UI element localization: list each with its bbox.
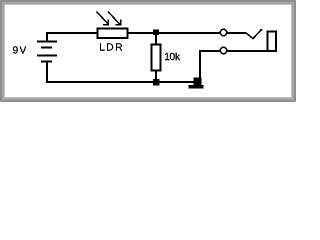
wire: junction A stub down to 10k <box>155 33 157 44</box>
light arrow 2 into LDR <box>108 12 121 25</box>
jack J1 plug body <box>268 32 277 52</box>
node: junction at 10k bottom on rail <box>153 79 160 86</box>
battery B1 short plate 2 <box>41 61 52 63</box>
battery B1 long plate 2 <box>37 55 57 57</box>
wire: LDR right lead to junction A <box>128 32 156 34</box>
wire: bottom rail to ground junction <box>46 81 197 83</box>
resistor R2 10k body <box>152 45 161 71</box>
label: LDR <box>100 43 122 50</box>
wire: jack sleeve wire left of circle <box>200 51 268 78</box>
label: 9V battery value <box>13 46 26 53</box>
node: junction at ground <box>194 78 202 86</box>
resistor R1 LDR body <box>98 29 128 39</box>
wire: junction A to jack tip contact <box>156 32 220 34</box>
light arrow 1 into LDR <box>97 12 109 25</box>
jack J1 tip spring contact <box>246 29 262 39</box>
battery B1 (9V) long plate 1 <box>37 41 57 43</box>
decorative frame (not a circuit element) <box>1 1 295 101</box>
ground symbol bar <box>189 85 204 89</box>
battery B1 short plate 1 <box>41 47 52 49</box>
wire: 10k bottom lead to bottom rail <box>155 70 157 82</box>
wire: top rail, battery + terminal to LDR left lead <box>47 33 97 41</box>
label: 10k resistor value <box>165 53 180 61</box>
jack J1 sleeve terminal circle <box>220 47 226 53</box>
wire: jack tip wire, circle to spring <box>227 32 246 34</box>
jack J1 tip terminal circle <box>220 29 226 35</box>
wire: battery - terminal down to bottom rail <box>46 62 48 82</box>
node: junction A (top of 10k) <box>153 29 159 34</box>
wire: sleeve circle to plug body <box>227 50 267 52</box>
